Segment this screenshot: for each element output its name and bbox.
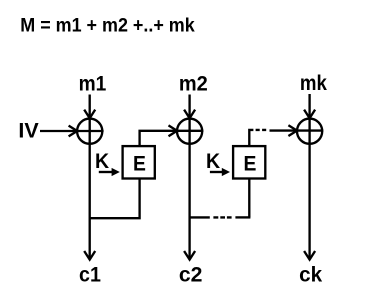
arrowhead E2 output into xor3 bbox=[288, 125, 297, 136]
svg-text:c2: c2 bbox=[179, 263, 203, 286]
arrowhead c1 output bbox=[84, 251, 95, 260]
arrowhead IV into xor1 bbox=[69, 126, 78, 137]
wire c2 tap dashes bbox=[213, 216, 231, 218]
wire IV -> xor1 horizontal bbox=[40, 130, 104, 132]
wire c2 tap solid bbox=[190, 216, 210, 218]
xor node X3 bbox=[297, 119, 322, 144]
svg-text:E: E bbox=[244, 152, 257, 176]
wire E2 output dashes bbox=[256, 129, 267, 131]
wire E2 output solid -> xor3 bbox=[270, 129, 324, 131]
svg-text:mk: mk bbox=[300, 72, 327, 95]
arrowhead m2 into xor2 bbox=[184, 110, 195, 119]
svg-text:E: E bbox=[133, 152, 146, 176]
svg-text:c1: c1 bbox=[79, 263, 101, 286]
arrowhead m1 into xor1 bbox=[84, 110, 95, 119]
arrow K1 into E1 bbox=[99, 171, 114, 173]
cipher block E2 bbox=[233, 146, 265, 178]
xor node X1 bbox=[77, 119, 102, 144]
svg-text:IV: IV bbox=[18, 120, 38, 143]
xor node X2 bbox=[177, 119, 202, 144]
arrowhead ck output bbox=[304, 251, 315, 260]
cipher block E1 bbox=[123, 146, 155, 178]
svg-text:M = m1 + m2 +..+ mk: M = m1 + m2 +..+ mk bbox=[20, 15, 195, 37]
arrowhead mk into xor3 bbox=[304, 110, 315, 119]
arrowhead c2 output bbox=[184, 251, 195, 260]
arrowhead E1 output into xor2 bbox=[169, 125, 178, 136]
wire mk -> xor3 -> ck vertical bbox=[308, 94, 310, 259]
wire c1 tap -> E1 input bbox=[90, 179, 140, 218]
svg-text:ck: ck bbox=[299, 263, 322, 286]
wire m1 -> xor1 -> c1 vertical bbox=[89, 95, 91, 259]
wire E1 output -> xor2 bbox=[140, 131, 204, 146]
svg-text:m2: m2 bbox=[179, 73, 208, 96]
wire E2 output elbow bbox=[249, 130, 253, 146]
svg-text:m1: m1 bbox=[79, 73, 107, 96]
svg-text:K: K bbox=[206, 150, 221, 173]
wire m2 -> xor2 -> c2 vertical bbox=[188, 95, 190, 259]
svg-text:K: K bbox=[95, 150, 110, 173]
wire E2 input vertical bbox=[248, 179, 250, 217]
arrow K2 into E2 bbox=[210, 171, 224, 173]
wire c2 tap solid right bbox=[235, 216, 250, 218]
